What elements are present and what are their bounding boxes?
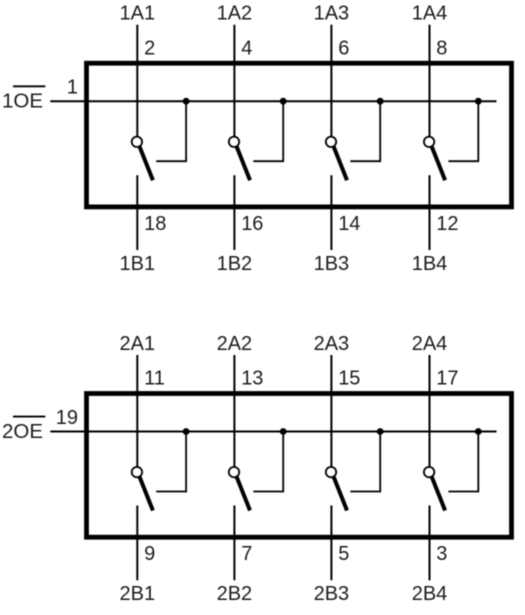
wire 1OE enable line	[50, 100, 496, 102]
svg-text:2A1: 2A1	[120, 333, 156, 355]
wire gate control to switch S22	[253, 432, 283, 492]
junction dot on 2OE line (column 2)	[280, 428, 287, 435]
svg-text:19: 19	[56, 407, 78, 429]
svg-text:2A4: 2A4	[412, 333, 448, 355]
junction dot on 1OE line (column 3)	[377, 98, 384, 105]
junction dot on 2OE line (column 4)	[475, 428, 482, 435]
switch S22 arm	[237, 477, 250, 511]
svg-text:13: 13	[241, 368, 263, 390]
switch S12 contact	[229, 137, 239, 147]
wire gate control to switch S14	[448, 101, 478, 161]
wire 2B2	[233, 506, 235, 581]
svg-text:8: 8	[436, 37, 447, 59]
switch S24 contact	[424, 467, 434, 477]
wire gate control to switch S13	[350, 101, 380, 161]
svg-text:2: 2	[144, 37, 155, 59]
svg-text:3: 3	[436, 543, 447, 565]
svg-text:17: 17	[436, 368, 458, 390]
svg-text:15: 15	[338, 368, 360, 390]
svg-text:16: 16	[241, 213, 263, 235]
svg-text:4: 4	[241, 37, 252, 59]
wire 1A4	[429, 25, 431, 137]
wire gate control to switch S23	[350, 432, 380, 492]
svg-text:12: 12	[436, 213, 458, 235]
wire gate control to switch S12	[253, 101, 283, 161]
wire 1B3	[330, 175, 332, 250]
svg-text:11: 11	[144, 368, 165, 390]
svg-text:1A2: 1A2	[217, 3, 253, 25]
switch S14 contact	[424, 137, 434, 147]
switch S11 arm	[140, 147, 153, 181]
wire 2B3	[330, 506, 332, 581]
junction dot on 2OE line (column 3)	[377, 428, 384, 435]
switch S13 contact	[326, 137, 336, 147]
wire 2B4	[429, 506, 431, 581]
junction dot on 1OE line (column 2)	[280, 98, 287, 105]
wire 2A2	[233, 355, 235, 467]
net 1OE label	[2, 86, 45, 112]
IC outline block 1	[87, 63, 512, 207]
switch S22 contact	[229, 467, 239, 477]
net 2OE label	[2, 417, 45, 443]
switch S23 contact	[326, 467, 336, 477]
svg-text:1A1: 1A1	[120, 3, 156, 25]
svg-text:7: 7	[241, 543, 252, 565]
wire 2A3	[330, 355, 332, 467]
svg-text:1A4: 1A4	[412, 3, 448, 25]
svg-text:2B4: 2B4	[412, 583, 448, 605]
svg-text:2B2: 2B2	[217, 583, 253, 605]
svg-text:1A3: 1A3	[314, 3, 350, 25]
wire 1B2	[233, 175, 235, 250]
svg-text:1B3: 1B3	[314, 253, 350, 275]
switch S11 contact	[132, 137, 142, 147]
svg-text:9: 9	[144, 543, 155, 565]
svg-text:2B3: 2B3	[314, 583, 350, 605]
switch S14 arm	[432, 147, 445, 181]
svg-text:1B4: 1B4	[412, 253, 448, 275]
wire 1A1	[136, 25, 138, 137]
svg-text:1B1: 1B1	[120, 253, 156, 275]
svg-text:5: 5	[338, 543, 349, 565]
wire 2A4	[429, 355, 431, 467]
IC outline block 2	[87, 394, 512, 538]
svg-text:1OE: 1OE	[2, 90, 43, 113]
wire gate control to switch S24	[448, 432, 478, 492]
svg-text:2A2: 2A2	[217, 333, 253, 355]
svg-text:14: 14	[338, 213, 360, 235]
switch S21 contact	[132, 467, 142, 477]
wire gate control to switch S21	[156, 432, 186, 492]
wire 1B1	[136, 175, 138, 250]
switch S23 arm	[334, 477, 347, 511]
svg-text:1B2: 1B2	[217, 253, 253, 275]
wire 1B4	[429, 175, 431, 250]
svg-text:6: 6	[338, 37, 349, 59]
junction dot on 2OE line (column 1)	[183, 428, 190, 435]
switch S24 arm	[432, 477, 445, 511]
switch S13 arm	[334, 147, 347, 181]
wire gate control to switch S11	[156, 101, 186, 161]
wire 2B1	[136, 506, 138, 581]
svg-text:2OE: 2OE	[2, 420, 43, 443]
wire 2OE enable line	[50, 431, 496, 433]
wire 1A3	[330, 25, 332, 137]
junction dot on 1OE line (column 4)	[475, 98, 482, 105]
wire 2A1	[136, 355, 138, 467]
junction dot on 1OE line (column 1)	[183, 98, 190, 105]
svg-text:18: 18	[144, 213, 166, 235]
svg-text:2A3: 2A3	[314, 333, 350, 355]
switch S21 arm	[140, 477, 153, 511]
switch S12 arm	[237, 147, 250, 181]
svg-text:1: 1	[67, 77, 78, 99]
wire 1A2	[233, 25, 235, 137]
svg-text:2B1: 2B1	[120, 583, 156, 605]
